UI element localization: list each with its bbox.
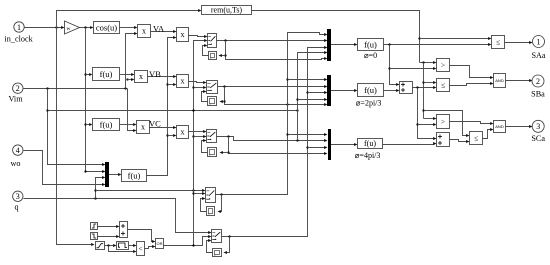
svg-text:rem(u,Ts): rem(u,Ts) — [211, 6, 243, 15]
svg-text:cos(u): cos(u) — [96, 22, 117, 32]
svg-text:VA: VA — [153, 23, 165, 33]
svg-text:in_clock: in_clock — [5, 35, 34, 44]
svg-text:3: 3 — [536, 122, 540, 131]
svg-text:<: < — [138, 244, 142, 253]
svg-text:≤: ≤ — [474, 134, 478, 143]
svg-text:f(u): f(u) — [364, 85, 377, 95]
svg-text:VB: VB — [149, 69, 161, 79]
svg-text:f(u): f(u) — [128, 170, 141, 180]
svg-text:q: q — [15, 203, 19, 212]
svg-text:SAa: SAa — [531, 51, 545, 60]
svg-text:≤: ≤ — [441, 81, 445, 90]
svg-text:1: 1 — [17, 23, 21, 32]
svg-text:>: > — [441, 117, 445, 126]
svg-text:≤: ≤ — [496, 38, 500, 47]
svg-text:4: 4 — [16, 146, 20, 155]
svg-text:x: x — [141, 123, 145, 132]
svg-text:⌀=2pi/3: ⌀=2pi/3 — [356, 99, 382, 108]
svg-text:SCa: SCa — [531, 134, 545, 143]
svg-text:>: > — [441, 61, 445, 70]
svg-text:⌀=0: ⌀=0 — [364, 51, 377, 60]
svg-text:wo: wo — [11, 159, 21, 168]
svg-text:VC: VC — [149, 118, 161, 128]
svg-text:3: 3 — [16, 192, 20, 201]
svg-text:x: x — [139, 72, 143, 81]
svg-text:SBa: SBa — [531, 90, 545, 99]
svg-text:f(u): f(u) — [100, 119, 113, 129]
svg-text:x: x — [181, 30, 185, 39]
svg-text:x: x — [181, 77, 185, 86]
svg-text:Vim: Vim — [9, 95, 24, 104]
svg-text:1: 1 — [537, 37, 541, 46]
svg-text:AND: AND — [495, 78, 504, 83]
svg-text:AND: AND — [495, 124, 504, 129]
svg-text:2: 2 — [16, 84, 20, 93]
svg-text:x: x — [142, 27, 146, 36]
svg-text:f(u): f(u) — [364, 39, 377, 49]
svg-text:OR: OR — [157, 241, 163, 246]
svg-text:x: x — [181, 128, 185, 137]
svg-text:2: 2 — [536, 77, 540, 86]
svg-text:f(u): f(u) — [100, 69, 113, 79]
svg-text:w: w — [67, 26, 71, 32]
svg-text:⌀=4pi/3: ⌀=4pi/3 — [355, 151, 381, 160]
svg-text:f(u): f(u) — [364, 139, 376, 148]
